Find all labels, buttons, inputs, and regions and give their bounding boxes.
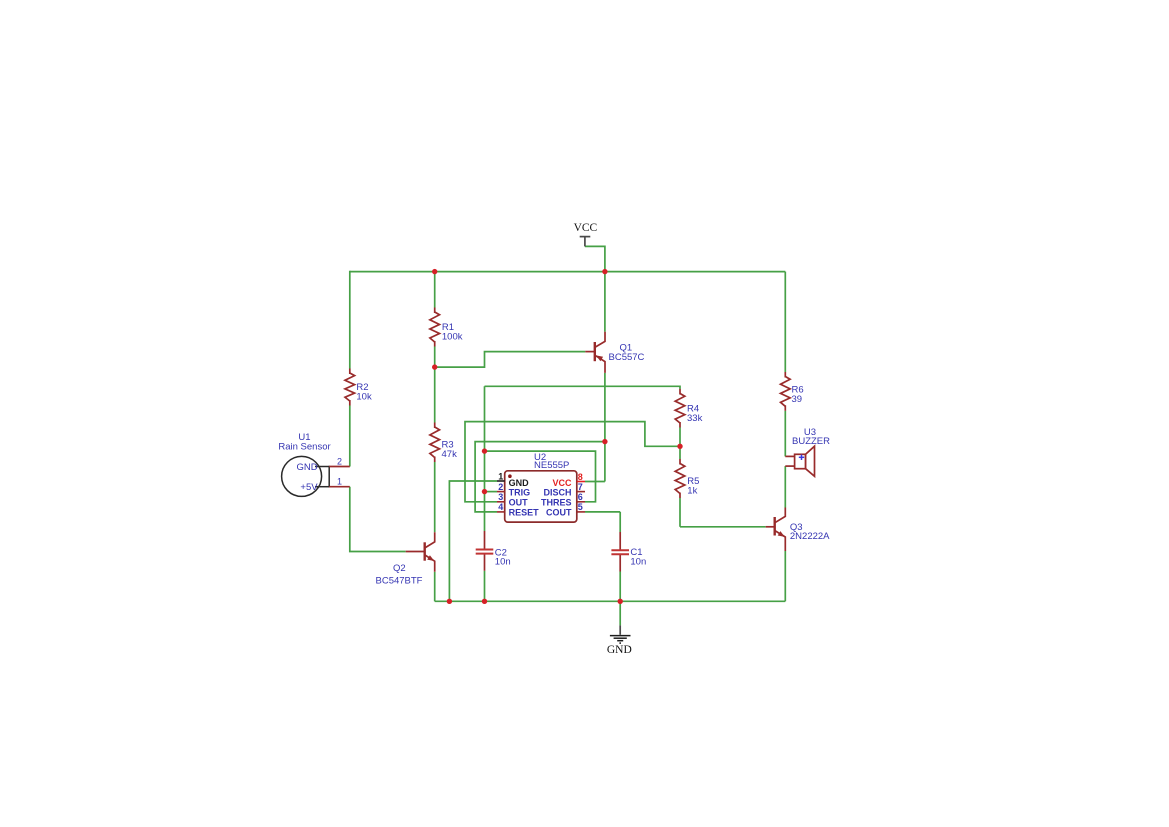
- svg-text:+5V: +5V: [300, 482, 318, 493]
- svg-text:7: 7: [578, 482, 583, 492]
- svg-text:10n: 10n: [495, 557, 511, 568]
- svg-text:GND: GND: [509, 478, 529, 488]
- svg-text:8: 8: [578, 472, 583, 482]
- svg-text:33k: 33k: [687, 413, 703, 424]
- svg-text:OUT: OUT: [509, 498, 528, 508]
- svg-text:VCC: VCC: [574, 222, 598, 234]
- svg-text:2: 2: [498, 482, 503, 492]
- svg-text:COUT: COUT: [546, 508, 572, 518]
- svg-text:3: 3: [498, 492, 503, 502]
- svg-text:2N2222A: 2N2222A: [790, 531, 830, 542]
- svg-text:Q2: Q2: [393, 563, 406, 574]
- svg-text:10k: 10k: [356, 392, 372, 403]
- svg-text:BC557C: BC557C: [609, 352, 645, 363]
- svg-text:RESET: RESET: [509, 508, 540, 518]
- svg-text:BUZZER: BUZZER: [792, 436, 830, 447]
- svg-text:DISCH: DISCH: [543, 488, 571, 498]
- svg-text:1: 1: [498, 471, 503, 481]
- svg-text:BC547BTF: BC547BTF: [376, 576, 423, 587]
- svg-text:100k: 100k: [442, 332, 463, 343]
- svg-text:10n: 10n: [630, 556, 646, 567]
- svg-text:1: 1: [337, 477, 342, 487]
- svg-text:THRES: THRES: [541, 498, 572, 508]
- svg-text:NE555P: NE555P: [534, 460, 569, 471]
- svg-text:6: 6: [578, 492, 583, 502]
- svg-text:5: 5: [578, 502, 583, 512]
- svg-text:4: 4: [498, 502, 503, 512]
- svg-text:TRIG: TRIG: [509, 488, 530, 498]
- svg-text:VCC: VCC: [552, 478, 572, 488]
- svg-text:39: 39: [792, 394, 803, 405]
- svg-text:GND: GND: [296, 462, 317, 473]
- svg-text:1k: 1k: [687, 486, 697, 497]
- svg-text:2: 2: [337, 456, 342, 466]
- svg-text:Rain Sensor: Rain Sensor: [278, 442, 330, 453]
- svg-text:47k: 47k: [442, 449, 458, 460]
- svg-text:GND: GND: [607, 644, 632, 656]
